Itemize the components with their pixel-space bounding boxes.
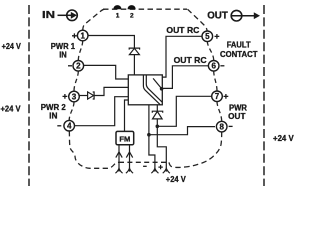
svg-text:+24 V: +24 V <box>273 134 294 143</box>
terminal 1 <box>72 30 88 41</box>
junction dot v2/high rail <box>156 125 160 129</box>
wire v1: box bottom down, jog, to minus plug <box>149 105 155 168</box>
converter band line A <box>143 75 160 105</box>
svg-text:6: 6 <box>211 62 216 71</box>
enclosure boundary: top-left diagonal dashed <box>83 9 105 31</box>
terminal 3 <box>63 91 80 102</box>
IN symbol <box>42 10 77 21</box>
svg-text:4: 4 <box>67 122 72 131</box>
wire T6 to box right edge junction <box>163 66 209 89</box>
wire D2 to converter box left edge <box>94 87 128 95</box>
terminal 5 <box>202 31 219 42</box>
svg-text:3: 3 <box>72 92 77 101</box>
label plus <box>158 165 162 169</box>
svg-text:CONTACT: CONTACT <box>220 50 258 59</box>
terminal 4 <box>57 120 74 131</box>
wire v2: box bottom through diode D3 down, jog right, to plus plug <box>157 105 166 168</box>
svg-text:OUT RC: OUT RC <box>174 55 207 65</box>
FM plug socket left <box>115 168 122 174</box>
DIP switch bump 2 <box>128 5 136 9</box>
dashed S-curve between T3 and T4 <box>69 102 74 120</box>
svg-text:IN: IN <box>42 10 55 21</box>
wire T4 to converter box left edge <box>75 97 129 126</box>
svg-text:FAULT: FAULT <box>227 40 251 49</box>
OUT symbol <box>207 10 260 21</box>
svg-text:5: 5 <box>205 32 210 41</box>
dashed S-curve between T5 and T6 <box>207 41 213 60</box>
diode D1 (schottky, cathode up) <box>129 48 139 55</box>
wire T2 to converter box left edge <box>84 65 128 79</box>
dashed S-curve between T7 and T8 <box>217 102 222 122</box>
svg-text:PWR: PWR <box>229 103 247 112</box>
enclosure boundary: top-right diagonal dashed <box>188 9 208 31</box>
svg-text:+24 V: +24 V <box>2 42 22 51</box>
terminal 6 <box>208 61 224 72</box>
diode D3 (schottky, cathode up) <box>152 111 162 119</box>
svg-text:7: 7 <box>215 92 220 101</box>
svg-text:IN: IN <box>59 51 67 60</box>
svg-text:OUT RC: OUT RC <box>166 25 199 35</box>
svg-text:OUT: OUT <box>207 11 228 22</box>
dashed S-curve between T6 and T7 <box>214 71 217 91</box>
terminal 8 <box>216 121 232 132</box>
svg-text:+24 V: +24 V <box>1 105 22 114</box>
svg-text:FM: FM <box>119 134 130 143</box>
svg-text:1: 1 <box>80 31 85 40</box>
enclosure boundary: bottom-right dashed curve up to T8 <box>169 132 222 168</box>
junction dot blade/T6 <box>160 87 164 91</box>
DIP switch bump 1 <box>113 5 121 9</box>
terminal 7 <box>212 91 229 102</box>
wire T5 to switch blade (through box right edge) <box>158 36 202 77</box>
minus plug socket <box>151 168 158 174</box>
svg-text:1: 1 <box>116 13 120 20</box>
right +24V supply rail (dashed) <box>263 5 265 186</box>
svg-text:IN: IN <box>49 112 58 121</box>
junction dot v1/low rail <box>147 133 151 137</box>
diode D2 (schottky, pointing right) <box>88 92 95 99</box>
switch blade <box>153 78 162 88</box>
wire T7 down and left to node on diode line (high rail) <box>157 96 212 126</box>
wire T8 with step to low rail and to v1 <box>149 127 215 135</box>
enclosure boundary: top dashed line <box>103 8 187 10</box>
dashed S-curve between T1 and T2 <box>78 41 82 61</box>
svg-text:2: 2 <box>130 13 134 20</box>
terminal 2 <box>68 61 84 72</box>
svg-text:OUT: OUT <box>228 112 245 121</box>
svg-text:+24 V: +24 V <box>166 175 187 184</box>
enclosure boundary: bottom dashed run through plug connectors <box>119 161 169 163</box>
wire T3 to diode D2 <box>80 95 88 97</box>
label minus <box>143 165 147 167</box>
FM plug wire right with up arrow <box>126 145 132 168</box>
plus plug socket <box>163 168 170 174</box>
converter band line B <box>146 75 162 102</box>
FM plug socket right <box>126 168 133 174</box>
FM plug wire left with up arrow <box>116 145 122 168</box>
svg-text:2: 2 <box>76 62 81 71</box>
left +24V supply rail (dashed) <box>28 5 30 186</box>
dashed S-curve between T2 and T3 <box>74 71 78 91</box>
FM box <box>116 131 134 144</box>
enclosure boundary: bottom-left dashed curve below T4 <box>69 131 119 168</box>
svg-text:8: 8 <box>219 123 224 132</box>
wire T1 to diode D1 to converter box top <box>88 36 134 76</box>
wire FM box to converter box left edge <box>125 100 129 131</box>
converter box <box>128 75 162 105</box>
